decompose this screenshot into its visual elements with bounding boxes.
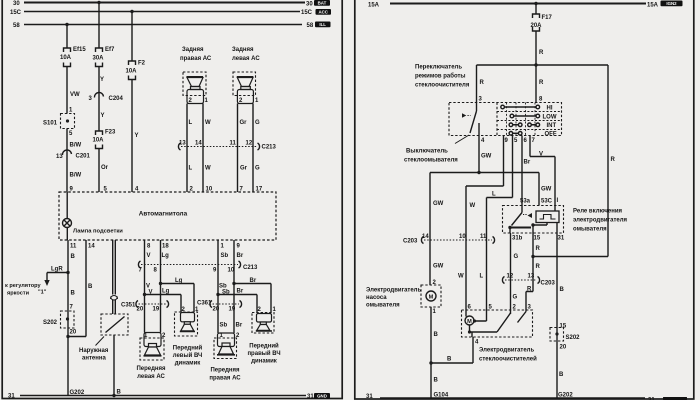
svg-text:W: W [205,166,211,172]
svg-text:C351: C351 [121,303,136,309]
svg-text:V: V [147,253,151,259]
svg-text:электродвигателя: электродвигателя [573,218,628,224]
svg-text:Переключатель: Переключатель [415,65,462,71]
svg-text:W: W [205,120,211,126]
svg-text:GND: GND [317,394,327,399]
svg-text:Lg: Lg [162,253,170,259]
svg-text:Выключатель: Выключатель [406,149,448,155]
svg-text:Lg: Lg [175,278,183,284]
svg-text:C361: C361 [197,301,212,307]
svg-text:Задняя: Задняя [232,47,254,53]
svg-text:R: R [536,246,541,252]
svg-text:Электродвигатель: Электродвигатель [479,348,534,354]
svg-text:INT: INT [547,123,557,129]
svg-text:левый ВЧ: левый ВЧ [173,352,203,359]
svg-text:C213: C213 [243,265,258,271]
svg-text:Электродвигатель: Электродвигатель [366,288,421,294]
svg-text:R: R [480,80,485,86]
svg-text:17: 17 [256,187,263,193]
svg-text:C203: C203 [403,239,418,245]
svg-text:V: V [539,152,543,158]
svg-text:GW: GW [481,154,492,160]
svg-text:ILL: ILL [319,22,326,27]
svg-text:30A: 30A [93,56,105,62]
svg-text:Передний: Передний [249,343,279,350]
svg-text:антенна: антенна [82,356,106,362]
svg-text:15A: 15A [368,3,380,9]
svg-text:30: 30 [306,2,313,8]
svg-text:Br: Br [236,323,243,329]
svg-text:11: 11 [480,234,487,240]
svg-text:F23: F23 [105,130,116,136]
svg-text:10A: 10A [93,138,105,144]
svg-text:C204: C204 [109,96,124,102]
svg-text:15C: 15C [10,10,22,16]
svg-text:13: 13 [179,141,186,147]
svg-text:левая АС: левая АС [232,56,260,62]
svg-text:C203: C203 [541,281,556,287]
svg-text:стеклоочистителя: стеклоочистителя [415,83,470,89]
svg-text:режимов работы: режимов работы [415,73,466,80]
svg-text:правая АС: правая АС [209,376,241,382]
svg-text:правая АС: правая АС [180,56,212,62]
svg-text:12: 12 [246,141,253,147]
svg-text:GW: GW [433,264,444,270]
svg-text:Автомагнитола: Автомагнитола [139,211,188,218]
svg-text:31: 31 [558,236,565,242]
svg-text:G104: G104 [434,393,449,399]
svg-text:19: 19 [229,307,236,313]
svg-text:20: 20 [137,307,144,313]
svg-text:14: 14 [195,141,202,147]
svg-text:L: L [189,120,193,126]
svg-text:13: 13 [528,274,535,280]
svg-text:C201: C201 [76,154,91,160]
svg-text:20: 20 [70,330,77,336]
svg-text:омывателя: омывателя [573,227,607,233]
svg-text:Sb: Sb [220,323,228,329]
svg-text:BAT: BAT [318,1,327,6]
svg-text:стеклоомывателя: стеклоомывателя [404,158,458,164]
svg-text:B: B [434,378,439,384]
svg-text:Br: Br [524,160,531,166]
svg-text:15C: 15C [301,10,313,16]
svg-text:10: 10 [459,234,466,240]
svg-text:G: G [255,166,260,172]
svg-text:10: 10 [206,187,213,193]
svg-text:R: R [539,50,544,56]
svg-text:B: B [559,372,564,378]
svg-text:Ef15: Ef15 [73,47,86,53]
svg-text:ACC: ACC [318,10,328,15]
svg-text:30: 30 [13,1,20,7]
svg-text:Gr: Gr [240,120,248,126]
svg-text:Передняя: Передняя [136,366,166,372]
svg-text:10A: 10A [126,69,138,75]
svg-text:B/W: B/W [70,143,82,149]
svg-text:19: 19 [153,307,160,313]
svg-text:15: 15 [534,236,541,242]
svg-text:Y: Y [101,113,105,119]
svg-text:Y: Y [135,133,139,139]
svg-text:динамик: динамик [251,359,277,365]
svg-text:LOW: LOW [543,115,557,121]
svg-text:G202: G202 [558,393,573,399]
svg-text:58: 58 [13,23,20,29]
svg-text:14: 14 [88,244,95,250]
svg-text:20A: 20A [531,23,543,29]
svg-text:S202: S202 [566,335,581,341]
svg-text:F2: F2 [138,61,146,67]
svg-text:Задняя: Задняя [182,47,204,53]
svg-text:R: R [611,157,616,163]
svg-text:насоса: насоса [366,295,387,301]
svg-text:LgR: LgR [51,267,63,273]
svg-text:53a: 53a [520,199,531,205]
svg-text:Наружная: Наружная [79,348,109,354]
svg-text:Sb: Sb [222,290,230,296]
svg-text:к регулятору: к регулятору [5,283,41,289]
svg-text:53C: 53C [541,199,553,205]
svg-text:12: 12 [507,274,514,280]
svg-text:15A: 15A [647,3,659,9]
svg-text:G: G [514,254,519,260]
svg-text:Br: Br [237,289,244,295]
svg-text:B: B [71,291,76,297]
svg-text:S101: S101 [43,121,58,127]
svg-text:омывателя: омывателя [366,303,400,309]
svg-text:Lg: Lg [162,289,170,295]
svg-text:Y: Y [100,77,104,83]
svg-text:B/W: B/W [70,173,82,179]
svg-text:L: L [189,166,193,172]
svg-text:GW: GW [433,201,444,207]
svg-text:18: 18 [162,244,169,250]
svg-text:S202: S202 [43,320,58,326]
svg-text:11: 11 [230,141,237,147]
svg-text:Br: Br [237,253,244,259]
svg-text:R: R [539,80,544,86]
svg-text:Ef7: Ef7 [105,47,115,53]
svg-text:R: R [536,264,541,270]
svg-text:L: L [480,274,484,280]
svg-text:B: B [117,390,122,396]
svg-text:Br: Br [250,278,257,284]
svg-text:Or: Or [101,165,109,171]
svg-text:яркости: яркости [7,291,30,297]
svg-text:10A: 10A [60,55,72,61]
svg-text:Gr: Gr [240,166,248,172]
svg-text:B: B [71,254,76,260]
svg-text:VW: VW [70,92,80,98]
svg-text:M: M [467,319,472,325]
svg-text:31b: 31b [512,236,523,242]
svg-text:13: 13 [56,154,63,160]
svg-text:20: 20 [213,307,220,313]
svg-text:IGN2: IGN2 [666,1,677,6]
svg-text:M: M [429,295,434,301]
svg-text:"1": "1" [38,290,47,296]
svg-text:Лампа подсветки: Лампа подсветки [73,229,123,235]
svg-text:Реле включения: Реле включения [573,209,623,215]
svg-text:W: W [470,203,476,209]
svg-text:58: 58 [307,23,314,29]
svg-text:10: 10 [228,268,235,274]
svg-text:15: 15 [560,324,567,330]
svg-text:V: V [149,290,153,296]
svg-text:31: 31 [8,394,15,400]
svg-text:G: G [255,120,260,126]
svg-text:B: B [447,357,452,363]
svg-text:стеклоочистителей: стеклоочистителей [479,356,537,363]
svg-text:B: B [434,332,439,338]
svg-text:динамик: динамик [175,361,201,367]
svg-text:14: 14 [422,234,429,240]
svg-text:31: 31 [366,394,373,400]
svg-text:правый ВЧ: правый ВЧ [247,350,280,357]
svg-text:L: L [492,192,496,198]
svg-text:C213: C213 [262,145,277,151]
svg-text:20: 20 [560,345,567,351]
svg-text:B: B [560,287,565,293]
svg-text:Передняя: Передняя [210,368,240,374]
svg-text:Передний: Передний [173,345,203,352]
svg-text:B: B [88,284,93,290]
svg-text:GW: GW [541,187,552,193]
svg-text:11: 11 [70,244,77,250]
svg-text:G202: G202 [70,390,85,396]
svg-text:31: 31 [307,394,314,400]
svg-text:F17: F17 [542,15,553,21]
svg-text:OFF: OFF [545,132,557,138]
svg-text:R: R [527,287,532,293]
svg-text:Sb: Sb [221,253,229,259]
svg-text:W: W [458,274,464,280]
svg-text:левая АС: левая АС [137,374,165,380]
svg-text:HI: HI [547,106,553,112]
svg-text:G: G [513,295,518,301]
